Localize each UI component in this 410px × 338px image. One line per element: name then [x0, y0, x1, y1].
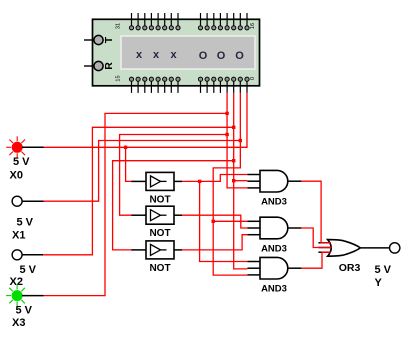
wire AND3 U5 output to OR3 input 2 [301, 228, 331, 248]
AND3 gate U6 body [260, 257, 288, 279]
svg-text:T: T [103, 36, 115, 43]
net C: wire branch to AND3 U4 input 2 [234, 180, 248, 182]
net A: wire drop to X0 row [44, 93, 247, 147]
svg-text:OR3: OR3 [339, 262, 361, 274]
net B: wire branch to X1 [44, 141, 241, 202]
probe X2 (off) [12, 250, 22, 260]
svg-text:5 V: 5 V [17, 217, 34, 229]
terminal T wire stub [84, 39, 94, 41]
net B: wire drop with jog to AND3 U6 input 3 [213, 93, 247, 275]
net D: wire branch to NOT U2 input [120, 135, 227, 216]
NOT gate U1 output stub [174, 180, 182, 182]
NOT gate U1 input stub [131, 180, 146, 182]
wire AND3 U6 output to OR3 input 3 [301, 252, 331, 268]
svg-text:x: x [136, 49, 143, 61]
word generator XWG body [93, 19, 260, 86]
svg-text:O: O [199, 50, 208, 62]
NOT gate U1 body [146, 172, 174, 190]
svg-text:16: 16 [250, 23, 256, 29]
AND3 gate U5 input stubs [247, 221, 260, 234]
svg-text:O: O [235, 50, 244, 62]
word generator top pins 23..16 [198, 13, 249, 30]
svg-text:AND3: AND3 [261, 284, 287, 295]
svg-text:X3: X3 [12, 317, 25, 329]
NOT gate U3 output stub [174, 249, 182, 251]
junction net B / AND U5 branch [212, 220, 215, 223]
terminal R [94, 61, 115, 70]
wire NOT U1 output to AND3 U4 input 1 [182, 175, 247, 182]
net D: wire pin7? vertical drop to AND3 U4 input 3 [227, 93, 247, 188]
AND3 gate U4 input stubs [247, 175, 260, 188]
junction net B / X1 branch [239, 139, 242, 142]
svg-text:0: 0 [250, 77, 256, 80]
junction net D / NOT U2 branch [225, 133, 228, 136]
word generator bottom pins 7..0 [198, 77, 249, 93]
terminal T [94, 35, 115, 44]
probe X3 (lit green LED) [6, 285, 28, 307]
probe X2 wire stub [22, 254, 43, 256]
wire AND3 U4 output to OR3 input 1 [301, 181, 331, 243]
svg-text:5 V: 5 V [16, 305, 33, 317]
wire NOT U2 output to AND3 U5 input 2 [182, 215, 247, 228]
probe X1 (off) [12, 196, 22, 206]
net A: wire branch to NOT U1 input [126, 147, 132, 181]
AND3 gate U4 body [260, 170, 288, 192]
net C: wire branch to NOT U3 input [113, 161, 234, 250]
OR3 gate U7 input stubs [318, 243, 331, 252]
NOT gate U2 output stub [174, 214, 182, 216]
probe X0 wire stub [22, 146, 44, 148]
svg-text:NOT: NOT [149, 194, 170, 205]
svg-text:AND3: AND3 [261, 197, 287, 208]
svg-text:5 V: 5 V [375, 264, 392, 276]
NOT gate U2 body [146, 206, 174, 224]
svg-text:NOT: NOT [149, 228, 170, 239]
junction net D / X3 branch [225, 112, 228, 115]
OR3 gate U7 output stub [360, 247, 389, 249]
probe X1 wire stub [22, 200, 44, 202]
svg-text:31: 31 [116, 23, 122, 29]
svg-text:X1: X1 [12, 230, 25, 242]
word generator top pins 31..24 [129, 13, 180, 30]
svg-text:5 V: 5 V [20, 264, 37, 276]
svg-text:O: O [217, 50, 226, 62]
NOT gate U3 input stub [131, 249, 146, 251]
svg-text:15: 15 [116, 75, 122, 81]
junction NOT U1 output / AND U6 branch [198, 180, 201, 183]
svg-text:Y: Y [375, 277, 383, 289]
junction net A / NOT U1 branch [124, 146, 127, 149]
net C: wire vertical drop to AND3 U6 input 2 [234, 93, 248, 269]
AND3 gate U6 input stubs [247, 262, 260, 275]
junction net C / AND U4 branch [232, 179, 235, 182]
svg-text:X0: X0 [10, 170, 23, 182]
output terminal Y [390, 243, 400, 253]
AND3 gate U5 output stub [288, 227, 302, 229]
svg-text:5 V: 5 V [13, 156, 30, 168]
svg-text:R: R [103, 62, 115, 70]
svg-text:AND3: AND3 [261, 244, 287, 255]
probe X0 (lit red LED) [6, 136, 28, 158]
net B: wire branch to AND3 U5 input 1 [213, 220, 247, 222]
NOT gate U3 body [146, 241, 174, 259]
AND3 gate U5 body [260, 217, 288, 239]
svg-text:NOT: NOT [149, 263, 170, 274]
OR3 gate U7 body [328, 240, 361, 257]
svg-text:x: x [170, 49, 177, 61]
probe X3 wire stub [22, 295, 44, 297]
AND3 gate U4 output stub [288, 180, 302, 182]
word generator display [121, 36, 255, 69]
junction net C / NOT U3 branch [232, 159, 235, 162]
display digits O O O [199, 50, 245, 62]
terminal R wire stub [84, 65, 94, 67]
NOT gate U2 input stub [131, 214, 146, 216]
wire NOT U3 output to AND3 U5 input 3 [182, 235, 247, 250]
display digits x x x [136, 49, 178, 61]
net C: wire branch to X2 [43, 127, 234, 255]
svg-text:x: x [153, 49, 160, 61]
AND3 gate U6 output stub [288, 267, 302, 269]
svg-text:X2: X2 [10, 276, 23, 288]
word generator bottom pins 15..8 [129, 77, 180, 93]
junction net C / X2 branch [232, 126, 235, 129]
wire NOT U1 output branch to AND3 U6 input 1 [200, 181, 248, 261]
net D: wire branch to X3 via left bus [44, 113, 228, 295]
